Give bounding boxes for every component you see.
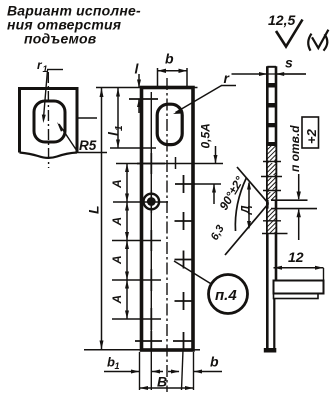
dimension A chain	[126, 164, 128, 320]
hole d extension lines	[271, 199, 308, 201]
detail centerline	[47, 72, 49, 168]
svg-text:0,5A: 0,5A	[199, 123, 213, 148]
countersink V callout	[225, 167, 269, 255]
dimension L	[101, 88, 103, 349]
detail slot r1	[34, 101, 65, 142]
svg-text:подъемов: подъемов	[24, 31, 97, 47]
svg-text:A: A	[110, 295, 124, 305]
section bands in strip	[268, 83, 276, 88]
svg-text:Д: Д	[239, 205, 253, 215]
svg-text:s: s	[285, 55, 293, 71]
dimension d arrows	[298, 174, 300, 199]
left column crosses	[135, 153, 165, 351]
side view strip	[267, 66, 276, 350]
row1 right tick	[175, 157, 177, 169]
svg-text:+2: +2	[304, 128, 319, 144]
svg-text:b: b	[165, 51, 174, 67]
svg-text:A: A	[110, 255, 124, 265]
main plate outline	[142, 88, 194, 351]
svg-text:A: A	[110, 217, 124, 227]
svg-text:A: A	[110, 179, 124, 189]
label r1	[37, 58, 63, 123]
callout п.4	[209, 275, 248, 314]
svg-text:R5: R5	[79, 138, 97, 153]
flange side view	[274, 281, 324, 294]
strip lower right wall	[273, 299, 275, 350]
strip bottom cap	[264, 348, 277, 353]
hatched hole zone	[268, 146, 276, 234]
label R5	[57, 122, 107, 153]
svg-text:L: L	[86, 205, 102, 214]
svg-text:п отв.d: п отв.d	[288, 125, 302, 172]
riveted hole	[144, 194, 160, 210]
dimension l1	[110, 147, 156, 149]
svg-text:12,5: 12,5	[268, 12, 295, 28]
dimension b top	[158, 68, 188, 87]
title text	[7, 3, 141, 47]
right column crosses	[173, 175, 195, 350]
bottom edge extension	[84, 349, 141, 351]
svg-text:b: b	[210, 354, 219, 370]
svg-text:12: 12	[288, 249, 304, 265]
svg-text:1: 1	[115, 361, 120, 371]
svg-text:B: B	[157, 374, 167, 390]
hole row ticks	[261, 162, 288, 234]
stray extension from detail	[78, 117, 97, 119]
right column bottom extension	[182, 350, 184, 390]
roughness (v)	[308, 30, 328, 51]
svg-text:п.4: п.4	[215, 287, 237, 304]
left hole column line	[150, 92, 152, 390]
dimension D (countersink)	[248, 183, 250, 228]
row extension lines left	[116, 163, 223, 165]
plate centerline	[166, 78, 168, 392]
b1/B extension lines	[139, 352, 141, 390]
svg-text:1: 1	[114, 125, 125, 131]
detail view body	[20, 89, 78, 158]
frame +2	[302, 117, 319, 148]
top edge extension	[96, 87, 141, 89]
main slot	[157, 104, 182, 144]
